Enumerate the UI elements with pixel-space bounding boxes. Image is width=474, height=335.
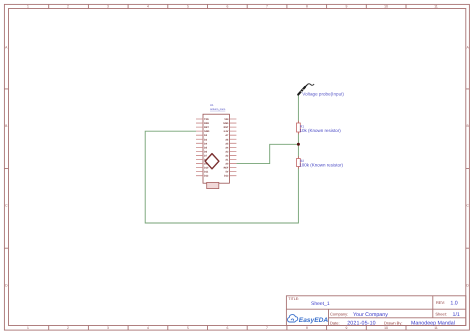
IC U1 arduino_nano	[203, 114, 229, 188]
svg-text:7: 7	[266, 5, 268, 9]
svg-text:10: 10	[384, 5, 388, 9]
svg-text:7: 7	[266, 326, 268, 330]
wire: R1 to junction to R2	[297, 132, 299, 159]
svg-text:2021-05-10: 2021-05-10	[347, 321, 376, 327]
U1 left pins	[196, 119, 203, 176]
svg-text:3: 3	[107, 5, 109, 9]
svg-text:10: 10	[384, 326, 388, 330]
svg-text:11: 11	[434, 5, 438, 9]
wire GND loop: U1 GND pin to R2 bottom	[145, 131, 298, 223]
svg-text:RST: RST	[224, 126, 229, 129]
resistor R2	[297, 156, 301, 169]
node junction at R1/R2 divider	[297, 143, 300, 146]
svg-text:D10: D10	[204, 167, 209, 170]
voltage probe symbol	[298, 84, 314, 95]
svg-text:6: 6	[227, 326, 229, 330]
svg-text:Your Company: Your Company	[353, 312, 388, 318]
svg-text:C: C	[5, 204, 8, 208]
svg-text:4: 4	[147, 326, 149, 330]
svg-text:1: 1	[27, 326, 29, 330]
svg-text:Sheet_1: Sheet_1	[311, 301, 330, 307]
svg-text:RST: RST	[204, 126, 209, 129]
svg-text:D: D	[466, 284, 469, 288]
svg-text:C: C	[466, 204, 469, 208]
svg-text:RXD: RXD	[204, 122, 209, 125]
svg-text:U1: U1	[210, 103, 214, 107]
svg-text:EasyEDA: EasyEDA	[299, 317, 329, 324]
svg-text:GND: GND	[204, 130, 210, 133]
svg-text:D13: D13	[224, 175, 229, 178]
svg-text:3: 3	[107, 326, 109, 330]
svg-text:GND: GND	[223, 122, 229, 125]
U1 right pin labels	[223, 118, 229, 178]
svg-text:1.0: 1.0	[450, 300, 457, 306]
svg-text:5: 5	[187, 326, 189, 330]
svg-text:TXD: TXD	[204, 118, 209, 121]
svg-text:9: 9	[346, 5, 348, 9]
svg-text:Company:: Company:	[330, 312, 348, 317]
title block	[286, 296, 465, 326]
svg-text:D11: D11	[204, 171, 209, 174]
svg-text:Date:: Date:	[330, 320, 340, 325]
svg-text:5V: 5V	[225, 171, 228, 174]
U1 right pins	[229, 119, 236, 176]
U1 left pin labels	[204, 118, 210, 178]
svg-text:REF: REF	[224, 167, 229, 170]
EasyEDA logo	[288, 315, 329, 324]
svg-text:Manodeep Mandal: Manodeep Mandal	[411, 321, 455, 327]
svg-text:1: 1	[27, 5, 29, 9]
svg-text:6: 6	[227, 5, 229, 9]
svg-text:3.3V: 3.3V	[223, 130, 228, 133]
svg-text:arduino_nano: arduino_nano	[210, 108, 226, 111]
svg-text:8: 8	[306, 326, 308, 330]
svg-text:REV:: REV:	[436, 300, 445, 305]
wire: probe to R1	[297, 94, 299, 123]
svg-text:10k (Known resistor): 10k (Known resistor)	[300, 128, 342, 133]
svg-text:TITLE:: TITLE:	[288, 297, 299, 301]
svg-text:D12: D12	[204, 175, 209, 178]
svg-text:A: A	[5, 46, 8, 50]
svg-text:100k (Known resistor): 100k (Known resistor)	[299, 163, 343, 168]
svg-text:5: 5	[187, 5, 189, 9]
resistor R1	[297, 121, 301, 135]
svg-text:Drawn By:: Drawn By:	[384, 320, 402, 325]
svg-text:8: 8	[306, 5, 308, 9]
svg-text:2: 2	[67, 326, 69, 330]
svg-text:1/1: 1/1	[453, 312, 460, 318]
svg-text:2: 2	[67, 5, 69, 9]
svg-text:9: 9	[346, 326, 348, 330]
svg-text:VIN: VIN	[224, 118, 228, 121]
svg-text:B: B	[5, 124, 8, 128]
wire A0: U1 A0 pin to junction	[236, 144, 298, 163]
svg-text:Sheet:: Sheet:	[435, 312, 447, 317]
svg-text:Voltage probe(Input): Voltage probe(Input)	[302, 91, 344, 96]
svg-text:11: 11	[434, 326, 438, 330]
svg-text:D: D	[5, 284, 8, 288]
svg-text:4: 4	[147, 5, 149, 9]
